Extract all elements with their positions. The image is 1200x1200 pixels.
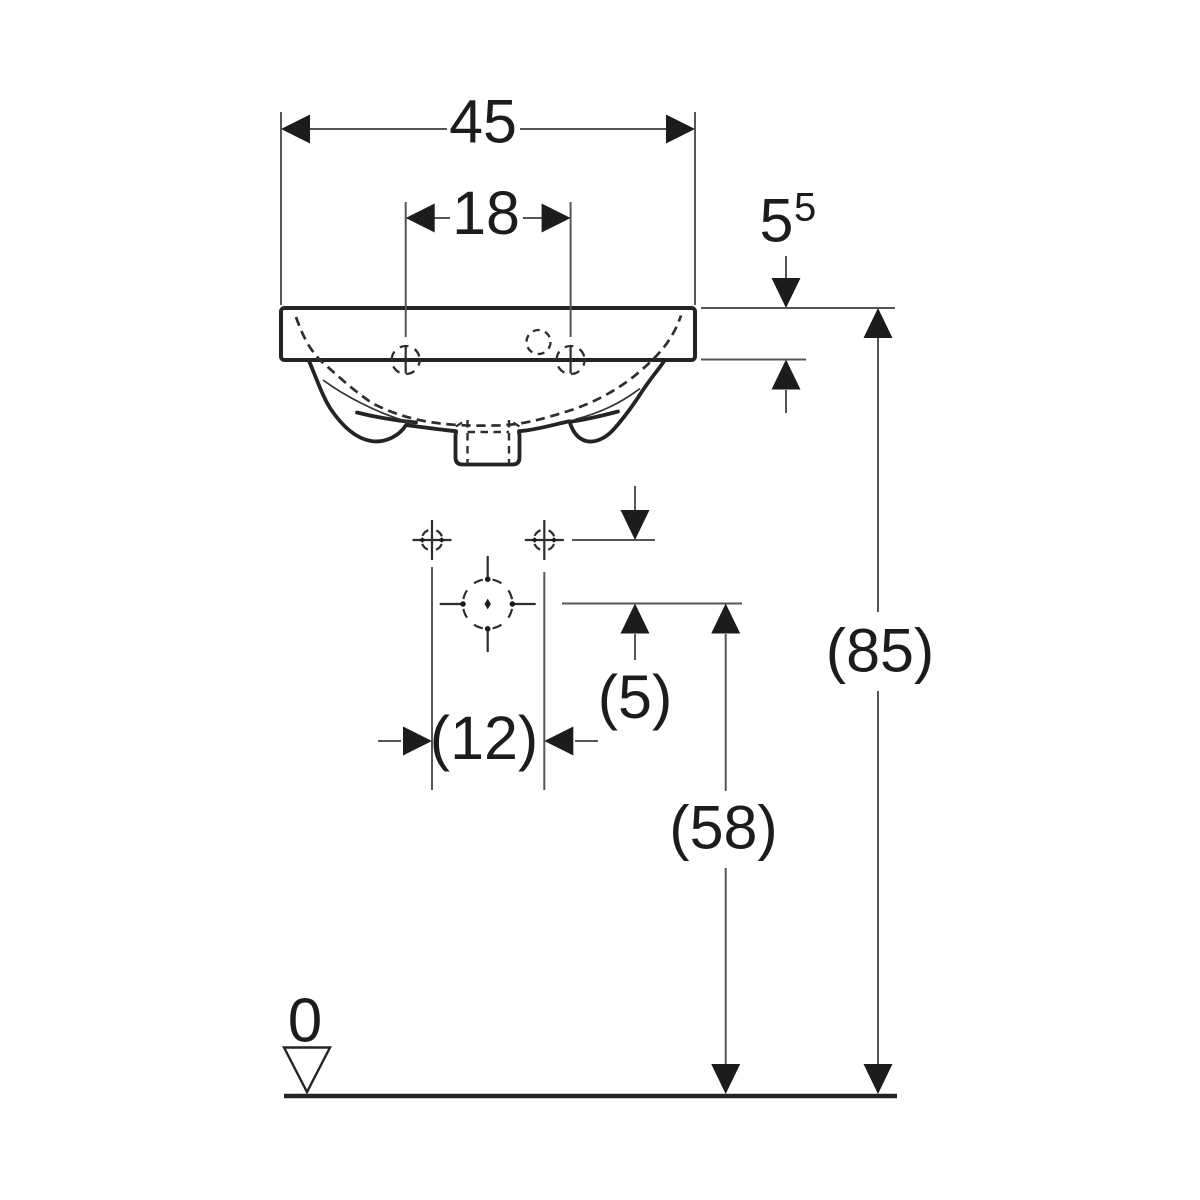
dim (12) right outside arrow <box>575 740 598 742</box>
dim 18 extension line right <box>570 202 572 337</box>
dim (58) bottom arrow <box>711 1064 740 1094</box>
overflow hole dashed circle <box>527 330 551 354</box>
dim (5) upper arrow pointing down <box>634 486 636 512</box>
svg-text:(58): (58) <box>669 794 777 862</box>
water supply connection right <box>525 520 564 560</box>
dim 45 arrow right <box>666 115 695 144</box>
dim 18 arrow right <box>542 204 571 233</box>
trap top junction tick left <box>456 423 462 427</box>
svg-text:0: 0 <box>288 987 322 1056</box>
basin slab (front view ceramic top) <box>281 308 695 360</box>
water supply connection left <box>413 520 452 560</box>
dim 45 line <box>284 128 447 130</box>
dim (58) vertical line <box>725 634 727 791</box>
dim (85) bottom arrow <box>864 1064 893 1094</box>
bowl underside line hidden behind left foot <box>357 413 416 423</box>
dim 45 extension line left <box>280 112 282 305</box>
bowl underside line hidden behind right foot <box>570 412 618 422</box>
svg-text:5: 5 <box>760 187 794 255</box>
dim (5) bottom extension line <box>562 603 742 605</box>
bowl inner wall thin curve left <box>323 380 413 423</box>
dim 5.5 bottom extension line (slab bottom prolonged) <box>701 359 806 361</box>
datum triangle <box>284 1048 330 1093</box>
dim 18 extension line left <box>405 202 407 337</box>
dim 45 arrow left <box>281 115 310 144</box>
svg-text:5: 5 <box>794 186 816 230</box>
basin inner rim dashed curve <box>296 316 681 426</box>
dim (12) extension line left <box>431 567 433 790</box>
basin outer bowl outline with feet and trap <box>309 361 665 465</box>
dim (5) top extension line <box>572 539 655 541</box>
svg-text:(12): (12) <box>430 704 538 772</box>
tap hole left (dashed circle with centerline) <box>392 346 420 374</box>
svg-text:(5): (5) <box>598 663 673 731</box>
dim 5.5 lower arrow pointing up <box>772 360 801 390</box>
dim (12) extension line right <box>543 572 545 790</box>
hidden drain pipe dashed lines in trap <box>466 420 468 464</box>
trap top junction tick right <box>514 423 520 427</box>
svg-text:45: 45 <box>449 88 517 156</box>
dim 5.5 top extension line (slab top prolonged) <box>701 307 895 309</box>
dim (12) left outside arrow <box>378 740 401 742</box>
dim (85) top arrow <box>864 308 893 338</box>
svg-text:(85): (85) <box>826 617 934 685</box>
bowl inner wall thin curve right <box>575 389 640 420</box>
drain outlet symbol (dashed circle with center cross) <box>440 556 536 652</box>
dim 45 extension line right <box>694 112 696 305</box>
tap hole right (dashed circle with centerline) <box>557 346 585 374</box>
floor reference line <box>284 1094 897 1099</box>
dim 5.5 upper arrow pointing down <box>785 256 787 280</box>
svg-text:18: 18 <box>452 179 520 247</box>
dim (5) lower arrow pointing up <box>621 604 650 634</box>
dim 18 line <box>408 217 450 219</box>
dim 18 arrow left <box>406 204 435 233</box>
dim (58) top arrow <box>711 604 740 634</box>
dim (85) vertical line <box>877 338 879 612</box>
